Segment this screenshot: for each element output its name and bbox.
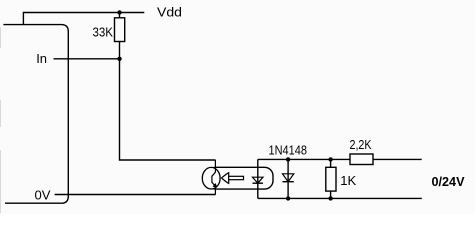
wire output top rail [258,158,422,160]
svg-text:1N4148: 1N4148 [269,143,308,158]
light arrow shaft [229,176,244,179]
resistor 33K vertical lead [119,13,121,59]
opto LED triangle [253,177,264,183]
wire 0V (from box to optocoupler emitter) [55,194,216,196]
junction dot 1K bottom [328,196,332,200]
diode 1N4148 triangle [283,174,294,182]
wire In (from box to pull-up node) [54,58,120,60]
emitter arrowhead [213,183,217,187]
left edge scan artifact [0,27,2,213]
microcontroller box outline (clipped at left) [3,25,68,204]
wire In node down and right to optocoupler transistor [120,59,216,160]
diode 1N4148 cathode bar [283,181,294,183]
resistor 2,2K body (in series on top rail) [350,154,373,165]
light arrow pointing left (head) [222,173,229,184]
svg-text:2,2K: 2,2K [350,137,372,152]
svg-text:0/24V: 0/24V [432,174,465,189]
wire output bottom rail [258,197,422,199]
resistor 33K body [115,18,125,42]
junction dot diode bottom [286,196,290,200]
junction dot Vdd node [117,10,121,14]
svg-text:1K: 1K [340,173,356,188]
svg-text:In: In [36,51,47,66]
junction dot In node [117,57,121,61]
resistor 1K lead [330,159,332,198]
svg-text:33K: 33K [93,25,114,40]
phototransistor symbol (collector lead, base bar, emitter with arrow) [212,160,216,195]
optocoupler package (stadium outline) [208,167,274,189]
junction dot 1K top [328,157,332,161]
opto LED cathode bar [253,182,264,184]
diode 1N4148 lead [287,159,289,198]
optocoupler phototransistor circle (opaque, covers stadium left end) [202,167,220,189]
svg-text:Vdd: Vdd [157,5,182,20]
svg-text:0V: 0V [35,188,51,203]
opto LED lead (through package) [257,159,259,198]
wire Vdd rail (jog from box top, to the right) [23,13,144,25]
junction dot diode top [286,157,290,161]
resistor 1K body [326,167,336,191]
